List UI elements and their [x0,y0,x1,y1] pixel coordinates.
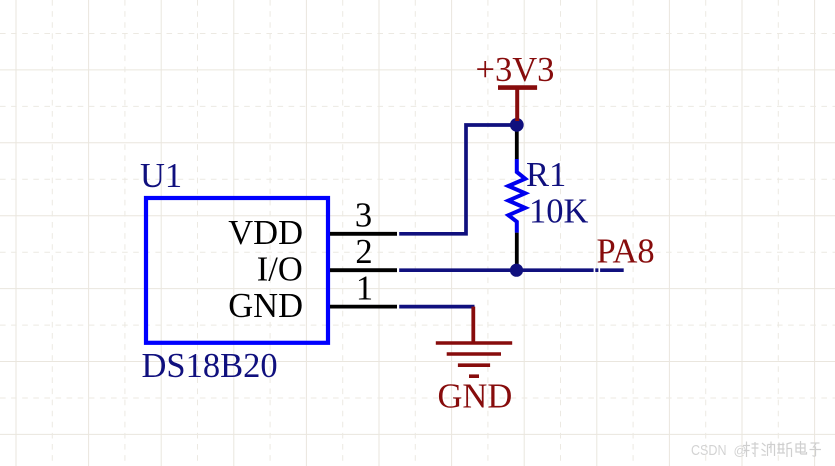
svg-text:DS18B20: DS18B20 [142,347,278,385]
svg-text:10K: 10K [529,192,589,230]
svg-text:+3V3: +3V3 [476,51,555,89]
svg-text:R1: R1 [526,156,566,194]
svg-text:3: 3 [355,197,372,235]
svg-text:I/O: I/O [257,251,303,289]
svg-text:1: 1 [356,270,373,308]
svg-text:2: 2 [355,233,372,271]
svg-text:PA8: PA8 [597,233,655,271]
svg-text:VDD: VDD [228,214,303,252]
svg-text:U1: U1 [140,157,182,195]
svg-text:GND: GND [438,378,513,416]
svg-text:GND: GND [228,287,303,325]
svg-text:CSDN: CSDN [691,442,727,459]
